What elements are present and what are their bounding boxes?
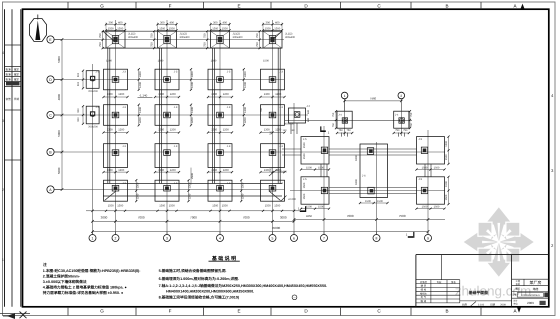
notes heading mark <box>43 262 47 267</box>
cap dims above axis 3 <box>156 21 177 31</box>
watermark zhulong.com text <box>455 284 532 299</box>
svg-text:6.基础埋深为1.000m,相对标高为为-0.200m,详图: 6.基础埋深为1.000m,相对标高为为-0.200m,详图. <box>159 276 239 281</box>
svg-text:比例: 比例 <box>462 302 468 306</box>
svg-text:基础平面图: 基础平面图 <box>468 290 489 295</box>
svg-text:J-3: J-3 <box>279 70 283 73</box>
wing sub-axis 1 vertical <box>344 99 346 137</box>
row bubble D <box>47 76 62 83</box>
svg-text:1500: 1500 <box>222 204 228 207</box>
svg-text:150: 150 <box>283 129 288 132</box>
svg-text:700: 700 <box>270 167 273 172</box>
svg-text:±0.000: ±0.000 <box>279 171 287 174</box>
svg-text:200x200: 200x200 <box>88 90 98 93</box>
bottom margin zone letters <box>68 307 521 316</box>
svg-text:1500: 1500 <box>445 181 448 187</box>
pile cap J-1 axis 5/E <box>263 23 282 49</box>
svg-text:结 构: 结 构 <box>421 288 427 292</box>
svg-text:1500: 1500 <box>159 27 165 30</box>
wing footing dim below B at 315 <box>300 166 330 170</box>
notes title <box>209 255 240 262</box>
svg-text:日期: 日期 <box>14 97 20 101</box>
svg-text:4: 4 <box>219 237 221 241</box>
svg-text:G: G <box>100 4 104 9</box>
svg-text:7000: 7000 <box>243 216 250 220</box>
svg-text:J-5: J-5 <box>419 178 423 181</box>
wing vertical tie beams <box>321 164 431 177</box>
svg-text:1500: 1500 <box>318 206 324 209</box>
svg-text:J-3: J-3 <box>227 106 231 109</box>
svg-text:200x200: 200x200 <box>88 126 98 129</box>
svg-text:审定: 审定 <box>14 67 20 71</box>
svg-text:900: 900 <box>77 72 80 77</box>
axis line A horizontal <box>54 189 284 191</box>
svg-text:J-3: J-3 <box>279 145 283 148</box>
svg-text:1500: 1500 <box>265 204 271 207</box>
svg-text:J-3: J-3 <box>174 182 178 185</box>
svg-text:1500: 1500 <box>445 140 448 146</box>
footing J-3 axis 2/C <box>104 105 128 126</box>
svg-text:专业: 专业 <box>437 280 442 284</box>
svg-text:5: 5 <box>272 237 274 241</box>
top margin zone letters <box>68 2 525 9</box>
svg-text:审定: 审定 <box>14 77 20 81</box>
svg-text:1500: 1500 <box>212 204 218 207</box>
svg-text:1500: 1500 <box>158 60 164 63</box>
footing dim below axis 3/D <box>154 93 180 98</box>
wing right dim at 190.5 <box>445 176 450 206</box>
svg-text:750: 750 <box>410 112 413 117</box>
gap texts between rows E-D <box>106 60 269 63</box>
footing gap dim 3-4/D <box>190 68 194 91</box>
svg-text:1300: 1300 <box>158 128 164 131</box>
row B-A gap dim <box>191 168 194 185</box>
svg-text:400: 400 <box>118 21 123 24</box>
svg-text:1500: 1500 <box>169 27 175 30</box>
svg-text:持力层承载力标准值-详见各基础大样图 ±0.950. ●: 持力层承载力标准值-详见各基础大样图 ±0.950. ● <box>43 290 123 295</box>
svg-text:1: 1 <box>344 94 346 98</box>
section mark 1-1 upper <box>321 126 330 134</box>
section mark 1-1 near axis6 <box>298 206 306 212</box>
cap dims above axis 4 <box>209 21 230 31</box>
svg-text:1500: 1500 <box>306 166 312 169</box>
svg-text:1300: 1300 <box>107 93 113 96</box>
axis line 4 vertical <box>219 20 221 235</box>
row bubble B <box>47 148 62 155</box>
svg-text:750: 750 <box>339 129 344 132</box>
left margin zone digits <box>2 51 4 262</box>
svg-text:1500: 1500 <box>106 60 112 63</box>
svg-text:3000: 3000 <box>101 216 108 220</box>
svg-text:1200: 1200 <box>170 128 176 131</box>
footing J-2 axis 6/C <box>283 105 311 132</box>
svg-text:1300: 1300 <box>158 93 164 96</box>
svg-text:1200: 1200 <box>223 93 229 96</box>
svg-text:JL1(2): JL1(2) <box>285 33 292 36</box>
svg-text:1200: 1200 <box>136 193 139 199</box>
svg-text:7000: 7000 <box>347 214 354 218</box>
svg-text:B: B <box>445 308 448 313</box>
svg-text:300: 300 <box>213 21 218 24</box>
svg-text:3: 3 <box>166 237 168 241</box>
svg-text:J-5: J-5 <box>303 178 307 181</box>
wing row A axis <box>290 190 445 192</box>
svg-text:400: 400 <box>275 21 280 24</box>
svg-text:1300: 1300 <box>241 182 244 188</box>
svg-text:2900: 2900 <box>191 173 194 179</box>
svg-text:750: 750 <box>204 33 207 38</box>
axis line 5 vertical <box>272 20 274 235</box>
footing dim below axis 3/C <box>154 128 180 133</box>
svg-text:JL1(2): JL1(2) <box>233 33 240 36</box>
svg-text:1300: 1300 <box>244 71 247 77</box>
cap dims above axis 2 <box>105 21 126 31</box>
svg-text:7500: 7500 <box>399 214 406 218</box>
wing right dim at 150.3 <box>445 136 450 166</box>
svg-text:J-3: J-3 <box>174 70 178 73</box>
svg-text:1500: 1500 <box>274 27 280 30</box>
svg-text:批准: 批准 <box>6 72 12 76</box>
axis line 3 vertical <box>166 20 168 235</box>
svg-text:暖 通: 暖 通 <box>421 300 427 303</box>
svg-text:1200: 1200 <box>189 193 192 199</box>
svg-text:JL1(2): JL1(2) <box>128 33 135 36</box>
axis bubble 6 <box>291 232 298 242</box>
svg-text:3.±0.000以下墙体砌筑做法: 3.±0.000以下墙体砌筑做法 <box>43 279 87 284</box>
svg-text:1200: 1200 <box>118 169 124 172</box>
svg-text:1500: 1500 <box>212 27 218 30</box>
svg-text:750: 750 <box>395 129 400 132</box>
axis bubble 4 <box>217 232 224 242</box>
svg-text:1500: 1500 <box>303 153 306 159</box>
svg-text:J-3: J-3 <box>122 106 126 109</box>
svg-text:J-5: J-5 <box>303 138 307 141</box>
title block signature table <box>416 280 460 303</box>
footing dim below axis 5/C <box>259 128 285 133</box>
svg-text:1500: 1500 <box>306 206 312 209</box>
svg-text:300x400: 300x400 <box>128 36 139 39</box>
svg-text:5.基础施工时,须结合设备基础图预留孔洞.: 5.基础施工时,须结合设备基础图预留孔洞. <box>159 268 227 273</box>
svg-text:750: 750 <box>256 42 259 47</box>
axis line 1 vertical <box>92 64 94 235</box>
svg-text:1.本图:砼C30,AC150砼垫层-钢筋为-HPB235(: 1.本图:砼C30,AC150砼垫层-钢筋为-HPB235(Ⅰ)-HRB335(… <box>43 268 141 273</box>
svg-text:日期: 日期 <box>490 302 496 306</box>
wing left dim at 150.3 <box>303 142 306 159</box>
footing J-3 axis 4/D <box>208 69 232 90</box>
svg-text:7.轴A-1-J,2-J,3-J,4-J,5-J轴基础做法为: 7.轴A-1-J,2-J,3-J,4-J,5-J轴基础做法为M250X250,H… <box>159 283 327 288</box>
svg-text:1500: 1500 <box>422 206 428 209</box>
wing row C axis <box>285 119 412 121</box>
bottom-left registration marks <box>0 312 30 319</box>
svg-text:900: 900 <box>77 81 80 86</box>
left wall line <box>108 48 110 183</box>
svg-text:审定: 审定 <box>14 72 20 76</box>
section mark 1-1 bottom right <box>406 232 414 238</box>
svg-text:1300: 1300 <box>139 107 142 113</box>
svg-text:1500: 1500 <box>365 200 371 203</box>
cap dims above axis 5 <box>262 21 283 31</box>
svg-text:750: 750 <box>151 33 154 38</box>
svg-text:J-3: J-3 <box>227 70 231 73</box>
level mark right of building <box>269 170 288 177</box>
footing gap dim 2-3/C <box>138 104 142 127</box>
svg-text:400: 400 <box>170 21 175 24</box>
svg-text:6: 6 <box>293 237 295 241</box>
title block drawing title <box>468 290 489 295</box>
svg-text:5000: 5000 <box>57 167 61 174</box>
svg-text:J-3: J-3 <box>122 182 126 185</box>
svg-text:750: 750 <box>99 42 102 47</box>
svg-text:批准: 批准 <box>6 77 12 81</box>
footing J-3 axis 4/C <box>208 105 232 126</box>
axis line D horizontal <box>54 79 284 81</box>
wing small footing a dims <box>332 110 354 134</box>
svg-text:X2009JA00208-S: X2009JA00208-S <box>521 294 540 297</box>
svg-text:7000: 7000 <box>138 216 145 220</box>
right wall line <box>278 48 280 183</box>
svg-text:4250: 4250 <box>306 215 312 218</box>
interior wall along axis 4 <box>212 48 214 183</box>
right margin zone digits <box>551 93 554 248</box>
svg-text:1500: 1500 <box>274 204 280 207</box>
svg-text:J-3: J-3 <box>279 182 283 185</box>
footing dim below axis 5/D <box>259 93 285 98</box>
svg-text:750: 750 <box>204 42 207 47</box>
svg-text:300x400: 300x400 <box>180 36 191 39</box>
row bubble C <box>47 111 62 118</box>
svg-text:一: 一 <box>293 297 296 300</box>
footing dim below axis 2/C <box>102 128 128 133</box>
wing footing J-5 axis 9/B <box>417 137 445 164</box>
svg-text:G: G <box>100 308 104 313</box>
svg-text:设计: 设计 <box>513 300 517 303</box>
svg-text:会签: 会签 <box>6 97 12 101</box>
cap side dim axis 2 <box>99 30 104 49</box>
svg-text:7460: 7460 <box>370 97 377 101</box>
axis line E horizontal <box>54 39 284 41</box>
row A gap dim 2-3 <box>135 179 139 202</box>
svg-text:1300: 1300 <box>211 93 217 96</box>
svg-text:900: 900 <box>77 108 80 113</box>
svg-text:J-3: J-3 <box>174 145 178 148</box>
wing small footing b <box>394 111 409 128</box>
footing dim below axis 2/B <box>102 169 128 173</box>
svg-text:8.基础施工完毕后须经验收合格,方可施工(7,0019): 8.基础施工完毕后须经验收合格,方可施工(7,0019) <box>159 295 240 300</box>
svg-text:4.基础持力层粘土 2 层地基承载力标准值 180kpa.: 4.基础持力层粘土 2 层地基承载力标准值 180kpa. ● <box>43 285 127 290</box>
bottom dimension chain detail <box>86 204 302 212</box>
svg-text:45000: 45000 <box>272 226 281 230</box>
svg-text:HM400X1400,HM200X200,HM300X600: HM400X1400,HM200X200,HM300X600,HM250X900… <box>166 290 254 294</box>
footing J-3 axis 5/B <box>261 144 285 168</box>
axis line 9 vertical <box>427 130 429 235</box>
svg-text:J-5: J-5 <box>419 138 423 141</box>
notes left column <box>43 268 141 295</box>
row A gap dim 3-4 <box>187 179 191 202</box>
footing J-3 axis 3/C <box>155 105 179 126</box>
svg-text:JL1(2): JL1(2) <box>180 33 187 36</box>
svg-text:1200: 1200 <box>139 117 142 123</box>
svg-text:2: 2 <box>115 237 117 241</box>
footing dim below axis 3/B <box>154 169 180 173</box>
svg-text:1200: 1200 <box>170 93 176 96</box>
wing top dimension and bubbles <box>341 92 404 111</box>
svg-text:300: 300 <box>160 21 165 24</box>
svg-text:1500: 1500 <box>445 154 448 160</box>
svg-text:1500: 1500 <box>434 166 440 169</box>
footing dim below axis 4/D <box>207 93 233 98</box>
svg-text:5000: 5000 <box>57 130 61 137</box>
title block scale row <box>460 301 512 306</box>
wing footing J-5 axis 7/B <box>301 137 329 164</box>
title block frame <box>416 255 549 307</box>
footing dim below axis 4/C <box>207 128 233 133</box>
svg-text:2009: 2009 <box>527 301 534 305</box>
footing dim below axis 2/D <box>102 93 128 98</box>
footing J-3 axis 4/A <box>208 180 232 201</box>
svg-text:1300: 1300 <box>211 128 217 131</box>
svg-text:注: 注 <box>43 262 47 267</box>
svg-text:1200: 1200 <box>244 117 247 123</box>
svg-text:300x400: 300x400 <box>285 36 296 39</box>
svg-text:1: 1 <box>92 237 94 241</box>
footing J-3 axis 3/A <box>155 180 179 201</box>
svg-text:1200: 1200 <box>191 117 194 123</box>
svg-text:1200: 1200 <box>139 82 142 88</box>
left binding strip table <box>5 9 21 307</box>
svg-text:3000: 3000 <box>280 216 287 220</box>
svg-text:300x400: 300x400 <box>233 36 244 39</box>
svg-text:1500: 1500 <box>445 194 448 200</box>
svg-text:D: D <box>49 78 52 82</box>
svg-text:1200: 1200 <box>275 93 281 96</box>
pile cap J-1 axis 2/E <box>106 23 125 49</box>
cap label axis 5 <box>285 33 296 40</box>
axis line C horizontal <box>54 114 308 116</box>
svg-text:1200: 1200 <box>191 82 194 88</box>
wing small footing a <box>337 111 352 128</box>
axis line 6 vertical <box>293 103 295 235</box>
axis bubble 5 <box>269 232 276 242</box>
svg-text:给排水: 给排水 <box>420 291 428 295</box>
building corner diagonals <box>103 31 282 200</box>
svg-text:750: 750 <box>403 129 408 132</box>
wing bottom dimension chain <box>293 214 445 221</box>
svg-text:750: 750 <box>347 129 352 132</box>
svg-text:J-3: J-3 <box>227 182 231 185</box>
row bubble E <box>47 36 62 43</box>
footing gap dim 3-4/C <box>190 104 194 127</box>
cap side dim axis 3 <box>151 30 156 49</box>
svg-text:某厂房: 某厂房 <box>530 280 542 285</box>
level mark lower <box>281 196 297 202</box>
footing J-3 axis 5/A <box>261 180 285 201</box>
svg-text:1500: 1500 <box>108 27 114 30</box>
svg-text:1500: 1500 <box>159 204 165 207</box>
svg-text:5000: 5000 <box>57 56 61 63</box>
footing J-3 axis 5/C <box>261 105 285 126</box>
footing J-3 axis 2/D <box>104 69 128 90</box>
svg-text:J-3: J-3 <box>122 145 126 148</box>
svg-text:1300: 1300 <box>189 182 192 188</box>
wing small footing b dims <box>393 110 414 134</box>
svg-text:700: 700 <box>260 107 263 112</box>
svg-text:750: 750 <box>410 123 413 128</box>
wing footing J-5 axis 7/A <box>301 177 329 204</box>
wing footing dim below A at 430.5 <box>415 206 445 210</box>
notes right column <box>159 268 327 300</box>
wing row A tie beams <box>329 188 417 194</box>
bottom dimension chain spacing <box>91 216 295 223</box>
left dimension chain <box>57 38 64 191</box>
footing J-1 axis 1/D <box>77 70 99 94</box>
axis bubble 9 <box>425 232 432 242</box>
cap label axis 3 <box>180 33 191 40</box>
svg-text:1300: 1300 <box>107 128 113 131</box>
svg-text:1300: 1300 <box>136 182 139 188</box>
svg-text:1200: 1200 <box>275 128 281 131</box>
bottom total dimension <box>91 226 429 233</box>
svg-text:1200: 1200 <box>223 169 229 172</box>
svg-text:会签栏: 会签栏 <box>420 280 428 284</box>
svg-text:1200: 1200 <box>241 193 244 199</box>
svg-text:1300: 1300 <box>107 169 113 172</box>
svg-text:±0.000: ±0.000 <box>288 198 296 201</box>
svg-text:1500: 1500 <box>377 200 383 203</box>
svg-text:300: 300 <box>265 21 270 24</box>
svg-text:750: 750 <box>332 112 335 117</box>
pile cap J-1 axis 4/E <box>211 23 230 49</box>
wing short tie beams <box>291 123 404 137</box>
svg-text:电 气: 电 气 <box>421 295 427 299</box>
row E strip footing edges <box>103 31 282 48</box>
row bubble A <box>47 186 62 193</box>
svg-text:E: E <box>237 308 240 313</box>
svg-text:工程: 工程 <box>515 280 520 283</box>
row A gap dim 4-5 <box>240 179 244 202</box>
svg-text:1200: 1200 <box>118 93 124 96</box>
svg-text:1800: 1800 <box>355 179 358 185</box>
svg-text:-1.140: -1.140 <box>139 93 148 97</box>
svg-text:750: 750 <box>332 123 335 128</box>
svg-text:1500: 1500 <box>303 182 306 188</box>
footing J-3 axis 3/B <box>155 144 179 168</box>
svg-text:J-3: J-3 <box>227 145 231 148</box>
footing gap dim 4-5/C <box>243 104 247 127</box>
pile cap J-1 axis 3/E <box>158 23 177 49</box>
svg-text:4: 4 <box>2 51 4 55</box>
svg-text:600: 600 <box>307 117 310 122</box>
wing left dim at 190.5 <box>303 182 306 199</box>
svg-text:7000: 7000 <box>190 216 197 220</box>
level label in plan <box>138 93 153 97</box>
svg-text:1300: 1300 <box>139 71 142 77</box>
cap label axis 4 <box>233 33 244 40</box>
svg-text:2: 2 <box>2 188 4 192</box>
svg-text:单位: 单位 <box>513 302 517 305</box>
svg-text:1500: 1500 <box>222 27 228 30</box>
svg-text:1500: 1500 <box>117 204 123 207</box>
axis bubble 8 <box>373 232 380 242</box>
cap side dim axis 5 <box>256 30 261 49</box>
svg-text:1200: 1200 <box>244 82 247 88</box>
svg-text:F: F <box>169 308 172 313</box>
svg-text:1:100: 1:100 <box>478 303 485 306</box>
svg-text:1300: 1300 <box>191 71 194 77</box>
cap label axis 2 <box>128 33 139 40</box>
svg-text:C: C <box>49 114 52 118</box>
footing gap dim 2-3/D <box>138 68 142 91</box>
svg-text:1500: 1500 <box>434 206 440 209</box>
watermark pinwheel logo <box>464 207 534 276</box>
